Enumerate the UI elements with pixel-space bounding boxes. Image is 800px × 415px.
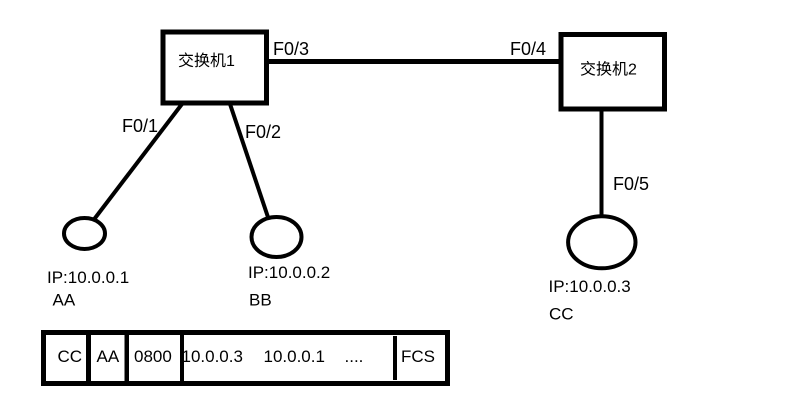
svg-text:AA: AA [97, 347, 120, 366]
svg-text:IP:10.0.0.1: IP:10.0.0.1 [47, 268, 129, 287]
svg-text:F0/5: F0/5 [613, 174, 649, 194]
label 交换机1 [179, 52, 235, 70]
host circle BB [252, 217, 302, 257]
frame table divider after CC [86, 335, 91, 381]
svg-text:IP:10.0.0.3: IP:10.0.0.3 [549, 277, 631, 296]
frame table outer border [44, 333, 448, 384]
wire F0/5 [600, 109, 604, 216]
svg-text:FCS: FCS [401, 347, 435, 366]
svg-text:AA: AA [53, 291, 76, 310]
svg-text:F0/2: F0/2 [245, 122, 281, 142]
svg-text:2: 2 [628, 62, 637, 79]
svg-text:....: .... [345, 347, 364, 366]
svg-text:0800: 0800 [134, 347, 172, 366]
svg-text:F0/3: F0/3 [273, 39, 309, 59]
svg-text:CC: CC [58, 347, 83, 366]
host circle CC [568, 216, 635, 268]
svg-text:CC: CC [549, 305, 574, 324]
host circle AA [64, 218, 105, 249]
svg-text:10.0.0.3: 10.0.0.3 [182, 347, 243, 366]
frame table divider after 0800 [180, 334, 184, 382]
label 交换机2 [581, 61, 637, 79]
svg-text:F0/4: F0/4 [510, 39, 546, 59]
svg-text:IP:10.0.0.2: IP:10.0.0.2 [248, 263, 330, 282]
frame table divider after AA [125, 335, 130, 381]
wire trunk F0/3-F0/4 [266, 59, 561, 64]
svg-text:1: 1 [226, 53, 235, 70]
wire F0/2 [230, 104, 277, 244]
svg-text:F0/1: F0/1 [122, 116, 158, 136]
switch box 交换机1 [163, 32, 267, 103]
wire F0/1 [89, 104, 182, 226]
svg-text:BB: BB [249, 291, 272, 310]
switch box 交换机2 [561, 35, 665, 110]
svg-text:10.0.0.1: 10.0.0.1 [264, 347, 325, 366]
frame table divider before FCS [393, 336, 397, 380]
